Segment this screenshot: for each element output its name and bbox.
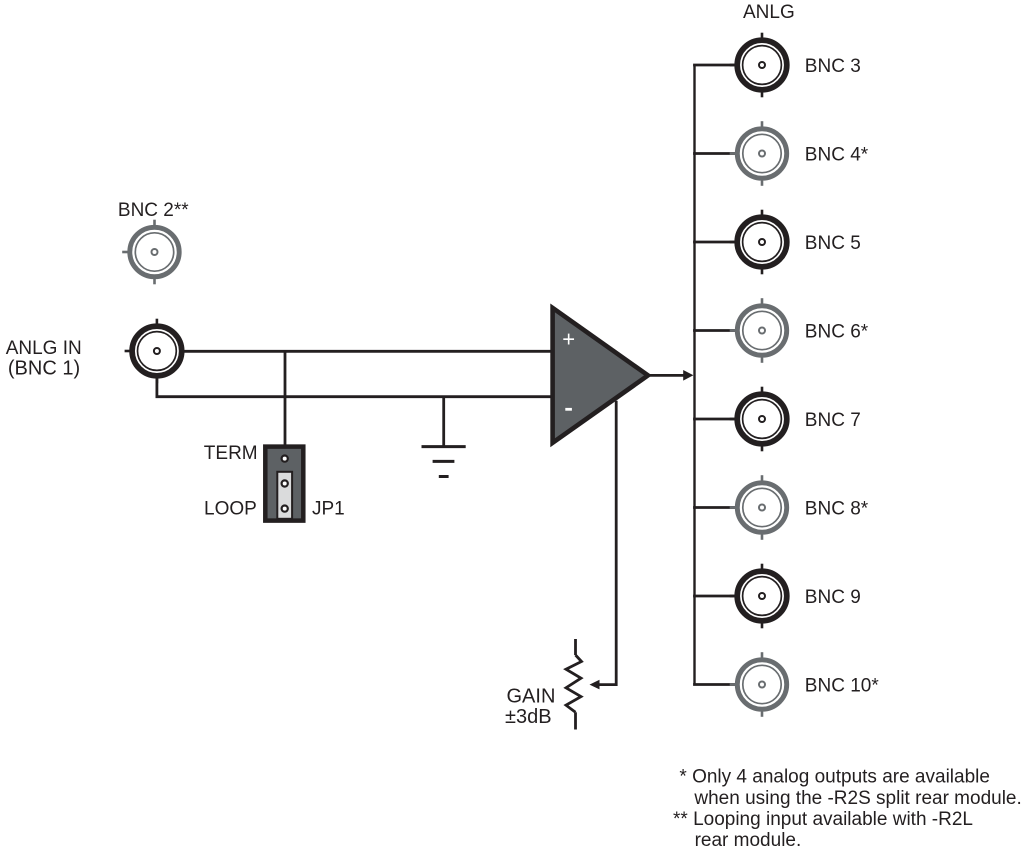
connector BNC5 <box>730 210 787 275</box>
svg-text:* Only 4 analog outputs are av: * Only 4 analog outputs are available <box>679 766 990 787</box>
svg-text:BNC 10*: BNC 10* <box>805 675 880 696</box>
svg-text:GAIN: GAIN <box>507 685 556 707</box>
svg-text:when using the -R2S split rear: when using the -R2S split rear module. <box>693 788 1021 809</box>
op-amp U1 amplifier triangle <box>553 308 648 443</box>
wire stub to BNC 9 <box>693 595 735 598</box>
wire stub to BNC 8 <box>693 506 735 509</box>
svg-text:TERM: TERM <box>204 443 258 464</box>
wire stub to BNC 5 <box>693 241 735 244</box>
svg-text:JP1: JP1 <box>312 499 345 520</box>
potentiometer GAIN top lead <box>574 639 577 655</box>
wire BNC1 to op-amp noninverting input <box>184 350 551 353</box>
connector BNC2 looping input <box>122 220 179 285</box>
connector BNC4 <box>730 121 787 186</box>
svg-text:BNC 6*: BNC 6* <box>805 321 869 342</box>
svg-text:LOOP: LOOP <box>204 499 257 520</box>
connector BNC3 <box>730 33 787 98</box>
svg-text:BNC 8*: BNC 8* <box>805 498 869 519</box>
svg-text:** Looping input available wit: ** Looping input available with -R2L <box>673 809 973 830</box>
connector BNC8 <box>730 475 787 540</box>
wire stub to BNC 3 <box>693 64 735 67</box>
svg-text:(BNC 1): (BNC 1) <box>8 357 80 379</box>
svg-text:BNC 4*: BNC 4* <box>805 144 869 165</box>
wire stub to BNC 7 <box>693 418 735 421</box>
ground symbol <box>422 447 466 477</box>
jumper JP1 cap <box>277 472 292 519</box>
wire drop to ground <box>442 397 445 447</box>
wire stub to BNC 4 <box>693 152 735 155</box>
connector BNC10 <box>730 652 787 717</box>
svg-text:BNC 2**: BNC 2** <box>118 200 189 221</box>
wire op-amp output <box>650 374 684 377</box>
wire junction drop to JP1 <box>284 351 287 446</box>
wire stub to BNC 10 <box>693 683 735 686</box>
jumper JP1 body <box>265 447 303 521</box>
svg-text:BNC 7: BNC 7 <box>805 410 861 431</box>
op-amp minus input label <box>565 408 572 411</box>
jumper JP1 pin 1 TERM <box>282 456 288 462</box>
potentiometer GAIN zigzag resistor <box>566 655 582 712</box>
svg-text:ANLG IN: ANLG IN <box>6 338 82 359</box>
connector BNC6 <box>730 298 787 363</box>
svg-text:BNC 9: BNC 9 <box>805 587 861 608</box>
svg-text:ANLG: ANLG <box>743 2 795 23</box>
svg-text:+: + <box>562 326 575 351</box>
potentiometer GAIN bottom lead <box>574 712 577 729</box>
svg-text:±3dB: ±3dB <box>505 706 552 728</box>
svg-text:BNC 3: BNC 3 <box>805 56 861 77</box>
wire feedback from op-amp to gain pot <box>598 401 617 685</box>
svg-text:BNC 5: BNC 5 <box>805 233 861 254</box>
wire BNC1 bottom drop <box>155 377 158 397</box>
wire stub to BNC 6 <box>693 329 735 332</box>
wire to op-amp inverting input <box>156 395 551 398</box>
connector BNC9 <box>730 564 787 629</box>
jumper JP1 pin 3 LOOP <box>282 506 288 512</box>
connector BNC1 analog input <box>125 319 182 384</box>
wire output bus <box>693 65 695 685</box>
jumper JP1 pin 2 <box>282 480 288 486</box>
svg-text:rear module.: rear module. <box>695 830 802 851</box>
connector BNC7 <box>730 387 787 452</box>
arrowhead into output bus <box>683 370 693 381</box>
arrowhead gain wiper <box>590 680 600 690</box>
